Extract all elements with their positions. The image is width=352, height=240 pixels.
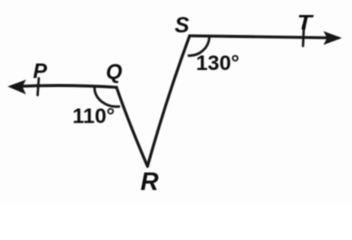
arrowhead at T bbox=[325, 32, 341, 44]
angle arc at Q bbox=[95, 88, 120, 107]
ray QP bbox=[13, 86, 117, 88]
tick mark near T bbox=[302, 26, 305, 47]
svg-text:110°: 110° bbox=[73, 105, 115, 128]
svg-text:R: R bbox=[140, 168, 158, 196]
svg-text:130°: 130° bbox=[196, 52, 239, 75]
segment RS bbox=[148, 36, 190, 167]
svg-text:T: T bbox=[297, 12, 315, 35]
svg-text:P: P bbox=[33, 60, 48, 83]
segment QR bbox=[117, 87, 148, 166]
tick mark near P bbox=[38, 78, 39, 95]
arrowhead at P bbox=[9, 81, 25, 94]
svg-text:Q: Q bbox=[106, 61, 122, 84]
angle arc at S bbox=[189, 37, 210, 56]
ray ST bbox=[190, 36, 338, 38]
svg-text:S: S bbox=[175, 13, 190, 38]
